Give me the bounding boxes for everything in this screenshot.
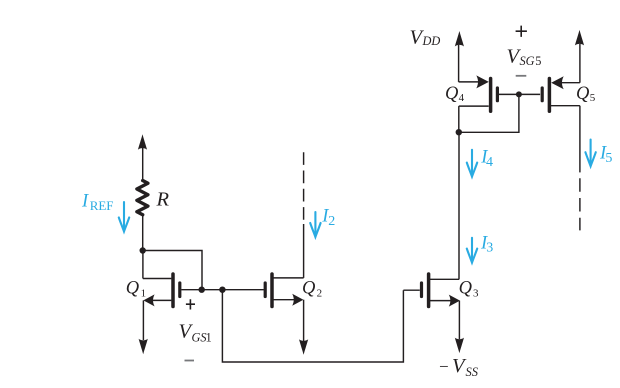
wire: resistor bottom to node A bbox=[142, 215, 144, 251]
Q2 drain lead bbox=[272, 277, 304, 279]
Q5 source arrowhead (points left into channel, PMOS) bbox=[551, 76, 564, 89]
svg-text:Q: Q bbox=[302, 279, 316, 299]
node E (gate junction dot Q4/Q5) bbox=[516, 91, 522, 97]
wire: gate bus from node B to node C bbox=[202, 289, 223, 291]
Q3 source arrowhead (points right, NMOS) bbox=[449, 295, 460, 307]
node D (junction dot Q3 drain / Q4 drain) bbox=[456, 129, 462, 135]
Q3 drain lead bbox=[429, 278, 460, 280]
Q4 channel bar bbox=[489, 79, 493, 112]
svg-text:Q: Q bbox=[459, 279, 473, 299]
Q1 drain lead bbox=[143, 278, 172, 280]
wire: Q3 source down bbox=[458, 301, 460, 339]
wire: Q3 drain up to node D bbox=[458, 132, 460, 279]
Q4 source arrowhead (points right into channel, PMOS) bbox=[476, 75, 489, 88]
svg-text:SS: SS bbox=[466, 365, 479, 379]
wire: node C to Q2 gate bbox=[222, 289, 263, 291]
Q3 source lead bbox=[429, 300, 452, 302]
svg-text:5: 5 bbox=[535, 54, 541, 68]
Q2 channel bar bbox=[270, 274, 274, 307]
Q3 gate bar bbox=[420, 283, 423, 297]
Q3 gate lead bbox=[403, 289, 419, 291]
wire: node D right and up to gate node E bbox=[459, 94, 519, 132]
label - (VSG5 minus) bbox=[516, 75, 527, 77]
Q4 gate bar bbox=[496, 88, 499, 101]
node C (gate bus junction dot) bbox=[219, 287, 225, 293]
Q1 channel bar bbox=[171, 274, 175, 307]
Q1 source lead bbox=[150, 299, 171, 301]
Q5 channel bar bbox=[548, 79, 552, 112]
svg-text:DD: DD bbox=[422, 34, 441, 48]
svg-text:1: 1 bbox=[141, 287, 147, 299]
arrowhead: top of IREF branch (up) bbox=[138, 134, 147, 150]
arrowhead: Q1 source to negative rail (down) bbox=[139, 339, 148, 355]
arrowhead: Q4 source to VDD (up) bbox=[455, 31, 464, 47]
svg-text:R: R bbox=[156, 189, 170, 211]
current arrow I3 (cyan, down) bbox=[467, 238, 477, 263]
svg-text:REF: REF bbox=[90, 198, 114, 213]
transistor Q5 bbox=[542, 76, 580, 111]
Q2 gate bar bbox=[264, 283, 267, 297]
transistor Q3 bbox=[403, 274, 460, 307]
Q3 channel bar bbox=[427, 274, 431, 307]
Q5 drain lead (bottom) bbox=[549, 105, 580, 107]
wire: IREF branch vertical (top arrow shaft) bbox=[142, 148, 144, 181]
current arrow IREF (cyan, down) bbox=[119, 202, 129, 232]
svg-text:Q: Q bbox=[126, 279, 140, 299]
wire: node D up to Q4 drain bbox=[458, 106, 460, 132]
node A (junction dot at resistor bottom) bbox=[140, 247, 146, 253]
wire: Q2 drain vertical (solid part) bbox=[303, 224, 305, 278]
svg-text:SG: SG bbox=[520, 54, 535, 68]
Q2 source lead bbox=[272, 299, 295, 301]
node B (Q1 gate junction dot) bbox=[199, 287, 205, 293]
wire: Q5 source up bbox=[579, 44, 581, 83]
svg-text:Q: Q bbox=[445, 84, 459, 104]
Q5 gate bar bbox=[541, 88, 544, 101]
svg-text:4: 4 bbox=[459, 92, 465, 104]
current arrow I4 (cyan, down) bbox=[467, 150, 477, 177]
svg-text:3: 3 bbox=[486, 241, 493, 256]
transistor Q2 bbox=[265, 274, 303, 307]
wire: node A down to Q1 drain bbox=[142, 251, 144, 279]
Q1 source arrowhead (points left, NMOS) bbox=[143, 294, 154, 306]
wire: node A to Q1 gate (right then down) bbox=[143, 251, 202, 290]
Q4 gate lead bbox=[499, 93, 519, 95]
svg-text:1: 1 bbox=[206, 331, 212, 345]
current arrow I5 (cyan, down) bbox=[585, 140, 595, 167]
label + (VSG5 plus) bbox=[516, 26, 527, 37]
svg-text:5: 5 bbox=[590, 92, 596, 104]
transistor Q4 bbox=[459, 75, 519, 111]
label + (VGS1 plus) bbox=[186, 299, 195, 309]
svg-text:4: 4 bbox=[486, 155, 493, 170]
Q4 source lead (top) bbox=[459, 81, 480, 83]
wire: node C down, along bottom, up to Q3 gate bbox=[222, 290, 403, 362]
svg-text:3: 3 bbox=[473, 287, 479, 299]
Q2 source arrowhead (points right, NMOS) bbox=[292, 294, 303, 306]
Q1 gate bar bbox=[178, 283, 181, 297]
wire: node E to Q5 gate bbox=[519, 93, 540, 95]
Q4 drain lead (bottom) bbox=[459, 105, 489, 107]
wire: Q2 drain dashed continuation bbox=[303, 152, 305, 224]
Q5 source lead (top) bbox=[558, 82, 580, 84]
wire: Q5 drain down (solid part) bbox=[579, 106, 581, 173]
resistor R bbox=[137, 181, 148, 215]
svg-text:5: 5 bbox=[605, 151, 612, 166]
svg-text:Q: Q bbox=[576, 84, 590, 104]
wire: Q2 source down bbox=[303, 300, 305, 341]
wire: Q5 drain dashed continuation bbox=[579, 178, 581, 230]
wire: Q4 source up bbox=[458, 45, 460, 82]
svg-text:I: I bbox=[81, 192, 89, 212]
transistor Q1 bbox=[143, 274, 202, 307]
wire: Q1 source down bbox=[142, 300, 144, 340]
Q1 gate lead bbox=[181, 289, 201, 291]
svg-text:GS: GS bbox=[192, 331, 207, 345]
label - (VGS1 minus) bbox=[185, 360, 195, 362]
svg-text:2: 2 bbox=[328, 214, 335, 229]
arrowhead: Q3 source down to -VSS bbox=[455, 338, 464, 354]
arrowhead: Q2 source down bbox=[299, 339, 308, 355]
current arrow I2 (cyan, down) bbox=[310, 212, 320, 237]
svg-text:−: − bbox=[439, 357, 449, 376]
svg-text:2: 2 bbox=[317, 287, 323, 299]
arrowhead: Q5 source up (to VDD rail) bbox=[575, 30, 584, 46]
